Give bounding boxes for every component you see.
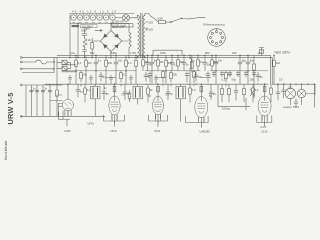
heater H2 dot	[79, 17, 80, 18]
node N1	[53, 61, 54, 62]
svg-text:2n: 2n	[186, 63, 189, 67]
svg-text:UL41: UL41	[262, 130, 269, 134]
capacitor C74	[148, 74, 152, 76]
resistor R62	[177, 60, 180, 66]
wire C74 lead	[149, 72, 151, 85]
svg-text:110-240V: 110-240V	[82, 24, 93, 28]
tube V4 cathode	[199, 111, 203, 113]
svg-text:3n: 3n	[80, 90, 83, 94]
capacitor C2	[83, 47, 87, 54]
capacitor C32	[123, 92, 127, 94]
socket key notch	[216, 29, 218, 30]
bus chassis rail	[22, 57, 272, 59]
wire C63 leads	[130, 75, 132, 84]
node bus x216	[216, 55, 217, 56]
resistor R17	[80, 73, 83, 79]
svg-text:0,8A: 0,8A	[158, 17, 164, 21]
svg-text:105V: 105V	[160, 51, 166, 55]
node out x284	[283, 83, 286, 86]
svg-text:0,2: 0,2	[123, 73, 127, 77]
wire v3 bottom bracket	[149, 115, 168, 127]
wire col a	[31, 85, 33, 116]
socket pin 4	[220, 41, 222, 43]
wire c2 gnd	[84, 54, 86, 57]
resistor R67	[253, 64, 256, 70]
tube V4 grids	[198, 104, 205, 109]
svg-text:0,1: 0,1	[87, 88, 91, 92]
wire C13 leads	[151, 55, 153, 70]
svg-text:Netz 220V~: Netz 220V~	[275, 51, 292, 55]
svg-text:1k2: 1k2	[276, 61, 281, 65]
ground bus	[21, 115, 105, 117]
tube V3 grids	[154, 102, 161, 107]
wire C23 leads	[257, 72, 259, 84]
output transformer T4 circle	[285, 88, 295, 98]
resistor R16	[273, 60, 276, 66]
wire C62 leads	[110, 75, 112, 84]
resistor R66	[193, 72, 196, 78]
wire hsegment 2	[106, 77, 116, 79]
wire C71 lead	[171, 55, 173, 70]
transformer TR1 core	[140, 13, 142, 58]
wire bridge left arm	[92, 40, 100, 42]
node rail x111	[110, 56, 113, 59]
svg-text:8n: 8n	[260, 75, 263, 79]
heater H4 dot	[92, 17, 93, 18]
tube V5 cathode	[262, 110, 266, 112]
svg-text:0,1µ: 0,1µ	[70, 51, 76, 55]
node rail x84.5	[83, 56, 86, 59]
wire hsegment 4	[201, 77, 211, 79]
wire R62 lead	[177, 55, 179, 70]
svg-text:50k: 50k	[214, 60, 219, 64]
svg-text:gl: gl	[258, 51, 260, 55]
wire heater 6V line	[153, 50, 182, 55]
node rail x92.1	[91, 56, 94, 59]
wire R51 leads	[56, 84, 58, 116]
terminal A2	[20, 61, 22, 63]
wire heater return row	[70, 23, 111, 25]
lamp La1 dial	[123, 15, 130, 22]
heater H6 dot	[105, 17, 106, 18]
resistor R15	[165, 60, 168, 66]
capacitor C31	[102, 92, 106, 94]
heater H5 UF41	[97, 15, 102, 20]
node bus x96	[96, 55, 97, 56]
arrow feed	[95, 29, 102, 31]
wire C42 leads	[229, 71, 231, 77]
wire antenna 4	[22, 72, 54, 74]
capacitor Cb	[35, 90, 39, 92]
node bus x190	[190, 55, 191, 56]
tube V4 anode	[200, 97, 202, 101]
resistor R13	[125, 60, 128, 66]
svg-text:Lautspr. 5904: Lautspr. 5904	[283, 105, 299, 109]
wire v4 bottom bracket	[186, 116, 209, 128]
node out x301.5	[300, 83, 303, 86]
capacitor Cd	[48, 90, 52, 92]
wire R60 lead	[142, 55, 144, 70]
resistor R3 zigzag	[83, 39, 87, 48]
wire detector bus	[218, 55, 254, 110]
svg-text:2k: 2k	[88, 38, 91, 42]
diode D4	[115, 45, 119, 49]
svg-text:2x50µ: 2x50µ	[110, 51, 118, 55]
terminal gnd	[20, 115, 22, 117]
lamp box L2 mark	[62, 66, 67, 70]
resistor R34	[189, 88, 192, 94]
node rail x70	[69, 56, 72, 59]
wire tr1 secondary bottom	[144, 57, 146, 58]
wire T3 leads	[180, 84, 182, 121]
svg-text:Nord-Mende: Nord-Mende	[4, 140, 8, 160]
svg-text:1M: 1M	[88, 61, 92, 65]
wire C30 leads	[77, 84, 79, 97]
node out x278	[277, 83, 280, 86]
wire left h1	[56, 94, 63, 96]
wire R66 lead	[193, 70, 195, 86]
capacitor C1 elco	[82, 29, 87, 39]
wire C12 leads	[115, 55, 117, 70]
wire lamp to transformer	[129, 15, 137, 18]
node bus x240	[240, 55, 241, 56]
diode D2	[115, 34, 119, 38]
node R64	[211, 54, 214, 57]
tube V5 pins	[262, 115, 267, 123]
terminal A5	[20, 84, 22, 86]
wire C31 leads	[103, 84, 105, 99]
tube V2 grids	[111, 102, 118, 107]
wire r2 top	[111, 24, 129, 31]
wire C14 leads	[215, 55, 217, 70]
svg-text:B250 C75: B250 C75	[113, 25, 125, 29]
svg-text:0,2: 0,2	[255, 88, 259, 92]
wire C32 leads	[124, 84, 126, 99]
node h6	[248, 70, 249, 71]
resistor R14	[135, 60, 138, 66]
svg-text:1M: 1M	[160, 60, 164, 64]
wire C11 leads	[95, 55, 97, 70]
transformer TR1 secondary winding	[143, 16, 145, 57]
svg-text:UF41: UF41	[88, 121, 95, 125]
capacitor C62	[109, 78, 113, 80]
node rail x129	[128, 56, 131, 59]
wire fuse lead	[151, 16, 159, 22]
svg-text:85V: 85V	[205, 51, 210, 55]
node rail x137.5	[136, 56, 139, 59]
wire bridge right arm	[122, 40, 129, 42]
wire C41 leads	[221, 71, 223, 77]
node R60	[142, 54, 145, 57]
resistor R64	[211, 60, 214, 66]
node rail x144.9	[143, 56, 146, 59]
wire tr1 primary bottom	[134, 57, 138, 58]
svg-text:50µ: 50µ	[90, 51, 95, 55]
capacitor Cc	[41, 90, 45, 92]
wire C19 leads	[195, 72, 197, 84]
bridge rectifier GR1 diamond	[100, 31, 122, 52]
wire R13 leads	[125, 55, 127, 70]
resistor R11	[85, 60, 88, 66]
capacitor C19	[194, 75, 198, 77]
svg-text:0,2: 0,2	[200, 60, 204, 64]
wire lamp boxes	[57, 62, 71, 68]
wire smoothing vertical	[77, 24, 79, 58]
capacitor C37	[294, 99, 298, 107]
capacitor C17	[99, 75, 103, 77]
resistor R36	[270, 88, 273, 94]
wire C17 leads	[100, 72, 102, 84]
capacitor C75	[185, 74, 189, 76]
capacitor C23	[256, 75, 260, 77]
svg-text:1M log: 1M log	[222, 107, 230, 111]
lamp box L1 mark	[62, 60, 67, 64]
heater H7 dot	[112, 17, 113, 18]
wire C44 leads	[245, 71, 247, 77]
wire C73 lead	[204, 55, 206, 70]
capacitor C35	[276, 92, 280, 94]
node anode x264.6	[264, 84, 265, 85]
resistor R72 screen V4	[200, 86, 203, 92]
switch S2 wave trap	[36, 60, 48, 64]
heater H7 UC92b	[110, 15, 115, 20]
svg-text:0,3: 0,3	[128, 61, 132, 65]
wire C40 leads	[213, 71, 215, 77]
svg-text:2n: 2n	[44, 87, 47, 91]
wire R35 leads	[252, 84, 254, 102]
socket pin 3	[221, 36, 223, 38]
wire power block left edge	[69, 14, 71, 58]
wire fuse to switch	[166, 21, 171, 23]
capacitor C63	[129, 78, 133, 80]
wire C43 leads	[237, 71, 239, 77]
coil L2 choke	[190, 58, 192, 68]
wire R15 leads	[165, 55, 167, 70]
wire heater interconnects	[70, 17, 123, 19]
svg-text:2n: 2n	[33, 87, 36, 91]
wire R22 leads	[243, 84, 245, 102]
diode D3	[104, 45, 108, 49]
wire col c	[42, 85, 44, 116]
capacitor C15	[238, 62, 242, 64]
socket pin 6	[211, 41, 213, 43]
wire input bus vertical	[54, 58, 57, 85]
IF can T3 box	[176, 86, 186, 99]
socket pin 7	[210, 36, 212, 38]
resistor R70 screen V2	[113, 86, 116, 92]
diode D1	[104, 34, 108, 38]
svg-text:U 250 mA: U 250 mA	[112, 20, 124, 24]
wire R10 leads	[75, 55, 77, 70]
capacitor C43	[236, 73, 240, 75]
node R63	[197, 54, 200, 57]
svg-text:50: 50	[106, 92, 109, 96]
node anode x158	[158, 84, 159, 85]
capacitor C41	[220, 73, 224, 75]
wire tr1 secondary top tap	[145, 14, 151, 17]
wire row1 to anode rail	[76, 71, 274, 85]
svg-text:220: 220	[149, 20, 154, 24]
resistor R71 screen V3	[157, 86, 160, 92]
capacitor C60	[68, 78, 72, 80]
capacitor C11	[94, 62, 98, 64]
wire HT end drop	[270, 55, 272, 84]
svg-text:5n: 5n	[98, 59, 101, 63]
svg-text:10k: 10k	[83, 73, 88, 77]
transformer TR1 primary winding	[138, 16, 140, 57]
wire r1 top	[91, 38, 93, 58]
resistor R60	[142, 60, 145, 66]
svg-text:Röhrenanordnung: Röhrenanordnung	[204, 22, 225, 26]
wire s2 out	[47, 61, 54, 63]
wire C70 lead	[147, 55, 149, 70]
node C70	[146, 54, 149, 57]
node anode x201.3	[201, 84, 202, 85]
tube V3 envelope	[153, 96, 164, 114]
svg-text:UF41: UF41	[154, 129, 161, 133]
svg-text:URW V-5: URW V-5	[6, 92, 15, 124]
IF can T2 box	[133, 86, 143, 99]
wire R65 lead	[162, 70, 164, 86]
lamp La1 cross	[124, 16, 129, 21]
wire left h2	[50, 100, 62, 102]
node bus x248	[248, 55, 249, 56]
wire C60 leads	[69, 75, 71, 84]
resistor R19	[170, 73, 173, 79]
terminal A3	[20, 68, 22, 70]
tube V4 pins	[199, 117, 204, 125]
heater tap ticks	[77, 14, 109, 16]
svg-text:5Ω: 5Ω	[289, 85, 292, 89]
resistor R63	[197, 60, 200, 66]
node out x314.5	[313, 83, 316, 86]
wire mains cord	[182, 17, 205, 18]
wire R20 leads	[221, 84, 223, 102]
wire C64 leads	[155, 75, 157, 84]
resistor R31	[84, 88, 87, 94]
resistor R65	[162, 72, 165, 78]
wire antenna 5	[22, 84, 62, 86]
svg-text:25k: 25k	[173, 73, 178, 77]
wire C61 leads	[90, 75, 92, 84]
capacitor C71	[170, 62, 174, 64]
wire R14 leads	[135, 55, 137, 70]
wire heater top rail	[70, 13, 134, 15]
wire v5 bottom bracket	[257, 116, 272, 127]
tube V1 pins	[59, 110, 71, 126]
AVC line seg1	[62, 70, 136, 72]
wire bridge bottom	[110, 52, 112, 58]
svg-text:0,5: 0,5	[279, 78, 283, 82]
label chain box2	[81, 25, 98, 28]
node h1	[76, 70, 77, 71]
socket pin 2	[220, 32, 222, 34]
resistor R51	[56, 90, 59, 96]
wire T1 leads	[94, 84, 96, 116]
capacitor C45	[252, 73, 256, 75]
resistor R33	[147, 88, 150, 94]
resistor R23	[225, 73, 228, 79]
capacitor C44	[244, 73, 248, 75]
node R61	[157, 54, 160, 57]
heater H6 UC92a	[103, 15, 108, 20]
wire C76 lead	[207, 72, 209, 85]
wire L2 leads	[189, 55, 191, 70]
heater H3 dot	[86, 17, 87, 18]
wire C34 leads	[210, 84, 212, 99]
wire R11 leads	[85, 55, 87, 70]
heater H1 UY41	[71, 15, 76, 20]
node C71	[171, 54, 174, 57]
capacitor C20	[234, 91, 238, 93]
svg-text:10n: 10n	[218, 59, 223, 63]
wire anode feeds to tubes	[68, 84, 265, 99]
heater H2 UL41	[77, 15, 82, 20]
tube V5 grids	[261, 103, 268, 108]
heater H1 dot	[73, 17, 74, 18]
node h5	[216, 70, 217, 71]
wire R64 lead	[211, 55, 213, 70]
wire v1 left stub	[58, 104, 62, 117]
svg-text:UABC80: UABC80	[200, 130, 211, 134]
svg-text:60: 60	[148, 94, 151, 98]
svg-text:30k: 30k	[108, 61, 113, 65]
capacitor C14	[214, 62, 218, 64]
tube V1 UC92 envelope	[62, 99, 73, 110]
tube V2 envelope	[109, 96, 120, 115]
node h4	[166, 70, 167, 71]
node C73	[204, 54, 207, 57]
wire R61 lead	[157, 55, 159, 70]
terminal A1	[20, 57, 22, 59]
svg-text:2k: 2k	[150, 88, 153, 92]
label chain box	[112, 24, 133, 27]
wire left v1 col1	[25, 85, 27, 116]
wire C72 lead	[183, 55, 185, 70]
svg-text:A-13: A-13	[261, 125, 267, 129]
svg-text:170V: 170V	[130, 51, 136, 55]
node R62	[177, 54, 180, 57]
socket pin 8	[211, 32, 213, 34]
label chain blob1	[72, 25, 80, 27]
node h3	[126, 70, 127, 71]
wire C18 leads	[145, 72, 147, 84]
node N2	[53, 68, 54, 69]
capacitor C13	[150, 62, 154, 64]
wire R36 leads	[270, 84, 272, 102]
lamp box L1	[62, 60, 67, 64]
node anode x114.5	[114, 84, 115, 85]
capacitor C36	[282, 90, 286, 92]
node C72	[183, 54, 186, 57]
wire antenna 3	[22, 68, 54, 70]
tube V5 envelope	[258, 96, 271, 116]
wire R18 leads	[120, 71, 122, 87]
resistor R68	[191, 62, 194, 68]
svg-text:50µF: 50µF	[81, 29, 87, 33]
switch S1 pivot	[170, 22, 171, 23]
tube V4 envelope	[195, 97, 208, 118]
svg-text:UF41: UF41	[111, 129, 118, 133]
resistor R35	[252, 88, 255, 94]
node P2	[110, 23, 111, 24]
speaker SP1	[297, 89, 305, 97]
svg-text:50µ: 50µ	[232, 78, 237, 82]
wire hsegment 3	[156, 77, 166, 79]
wire C15 leads	[239, 55, 241, 70]
heater H3 UAF42	[84, 15, 89, 20]
wire R21 leads	[228, 84, 230, 102]
